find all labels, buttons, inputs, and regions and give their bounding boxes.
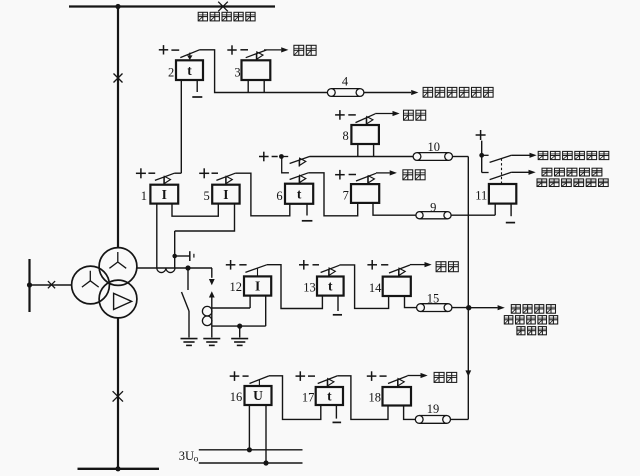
wire 3Uo line a xyxy=(199,449,303,451)
label 切母联断路器 right xyxy=(538,151,609,159)
wire up to relay 2 xyxy=(180,80,182,173)
svg-text:t: t xyxy=(327,389,332,404)
svg-text:6: 6 xyxy=(276,189,282,203)
svg-text:1: 1 xyxy=(141,189,147,203)
label 信号 row 7 xyxy=(403,170,425,180)
wire relay 11 right pin xyxy=(510,204,512,217)
wire 3Uo line b xyxy=(199,462,303,464)
wire element 9 to relay 11 coil xyxy=(451,214,495,216)
svg-text:U: U xyxy=(253,388,263,403)
arrow to signal row 14 xyxy=(425,262,432,267)
svg-text:19: 19 xyxy=(427,402,440,416)
arrow to signal row 3 xyxy=(281,47,288,52)
relay 7 box (signal relay) xyxy=(351,184,379,203)
wire relay 5 bottom to CT tap xyxy=(175,204,235,231)
svg-text:5: 5 xyxy=(204,189,210,203)
minus rail mark under relay 13 xyxy=(333,314,342,316)
wire relay 12 left pin xyxy=(249,296,251,308)
delta symbol LV winding xyxy=(114,293,132,309)
svg-text:3U: 3U xyxy=(179,449,194,463)
contact K14 blade (relay 14) xyxy=(389,265,410,273)
wire gap to neutral CT and ground xyxy=(211,298,213,338)
svg-text:2: 2 xyxy=(168,66,174,80)
contact K5 actuator xyxy=(226,176,233,184)
wye symbol HV winding xyxy=(109,252,126,268)
wire relay 2 right pin to minus xyxy=(196,80,198,92)
wire K3 to signal arrow xyxy=(264,49,281,51)
minus mark K17 xyxy=(308,375,315,377)
node bottom bus junction xyxy=(115,466,120,471)
wire K16 output to relay 17 xyxy=(269,376,321,420)
wire left busbar segment xyxy=(28,259,30,312)
wire K17 output to relay 18 xyxy=(337,376,388,420)
svg-text:14: 14 xyxy=(369,281,382,295)
discharge gap F lower electrode xyxy=(209,291,215,297)
label 信号 row 8 xyxy=(404,110,426,120)
contact K1 actuator xyxy=(164,176,171,184)
arrow to transformer master trip relay xyxy=(498,305,505,310)
relay 14 box (signal relay) xyxy=(383,277,411,296)
plus supply contact K2 xyxy=(159,45,168,54)
transformer T winding HV circle xyxy=(99,248,137,286)
minus rail mark under relay 6 xyxy=(302,220,313,222)
wire tap stub xyxy=(175,255,190,257)
contact K14 actuator xyxy=(399,268,406,276)
wire K18 to signal arrow xyxy=(408,375,421,377)
label 切本变压器 xyxy=(542,168,602,176)
contact K13 actuator xyxy=(329,268,336,276)
contact K3 actuator xyxy=(256,52,263,60)
relay 18 box (signal relay) xyxy=(383,387,412,406)
contact K1 blade (relay 1) xyxy=(155,173,175,180)
wire element 15 to trip bus xyxy=(452,307,468,309)
arrow flow marker on trip bus xyxy=(465,370,471,376)
wire relay 18 to element 19 xyxy=(404,406,416,420)
wire relay 11 left pin xyxy=(494,204,496,216)
wire CT lead to relay 5 chain xyxy=(174,231,176,268)
wire left bus to MV winding xyxy=(30,284,72,286)
minus mark K18 xyxy=(380,375,387,377)
contact K13 blade (relay 13) xyxy=(321,265,340,272)
wire K1 to relay 2 coil xyxy=(174,172,181,174)
svg-text:I: I xyxy=(162,187,167,202)
breaker X on HV bus xyxy=(114,74,123,83)
label 继电器 xyxy=(517,327,547,335)
label 信号 row 18 xyxy=(434,372,457,382)
svg-text:16: 16 xyxy=(230,390,243,404)
discharge gap F upper electrode xyxy=(209,279,215,285)
svg-text:9: 9 xyxy=(430,200,436,214)
transformer T winding LV circle xyxy=(99,280,137,318)
wire relay 16 right pin to 3Uo b xyxy=(265,405,267,463)
breaker X on MV branch xyxy=(48,281,55,288)
wire K5 output to relay 6 xyxy=(235,173,289,216)
series signal element 19 xyxy=(415,416,450,424)
wire K2 output rail to element 4 xyxy=(200,50,328,93)
wire to lower contact K6b xyxy=(282,157,289,173)
wire CT0 lower tap to relay 12 xyxy=(212,325,266,327)
svg-text:7: 7 xyxy=(343,188,349,202)
contact K2 arrow to relay 2 xyxy=(187,55,192,60)
plus supply contact K18 xyxy=(367,371,377,381)
minus rail mark under relay 2 xyxy=(192,96,202,98)
wire K8 to signal arrow xyxy=(375,113,392,115)
wire CT0 upper tap to relay 12 xyxy=(212,307,250,309)
relay 13 box (time relay t) xyxy=(317,277,344,296)
relay 12 box (current relay I) xyxy=(244,276,271,295)
svg-text:18: 18 xyxy=(369,391,382,405)
wire bottom busbar xyxy=(78,468,160,470)
wire rail to element 10 xyxy=(310,156,414,158)
node bus junction top xyxy=(115,4,120,9)
relay 5 box (current relay I) xyxy=(212,185,239,204)
plus supply contact K1 xyxy=(136,168,146,178)
svg-text:17: 17 xyxy=(302,390,315,404)
arrow trip bus-tie breaker xyxy=(411,90,418,95)
contact K6a blade (relay 6 instant) xyxy=(290,157,310,164)
svg-text:t: t xyxy=(328,279,333,294)
svg-text:3: 3 xyxy=(234,66,240,80)
wire element 10 to trip bus xyxy=(453,156,469,158)
contact K12 stem xyxy=(257,268,259,276)
node K6 supply split xyxy=(279,154,284,159)
label 至变压器 xyxy=(511,305,555,314)
contact K18 actuator xyxy=(398,379,405,387)
minus mark K16 xyxy=(243,375,249,377)
relay 2 box (time relay t) xyxy=(176,60,203,80)
contact K6a actuator xyxy=(299,158,306,166)
plus supply contact K13 xyxy=(299,260,309,270)
contact K18 blade (relay 18) xyxy=(388,376,408,384)
wire relay 16 left pin to 3Uo a xyxy=(248,405,250,450)
series signal element 4 xyxy=(327,89,364,97)
relay 6 box (time relay t) xyxy=(285,184,313,204)
wire top busbar xyxy=(69,5,275,7)
wire element 4 to trip arrow xyxy=(364,92,411,94)
plus supply contact K7 xyxy=(335,170,345,180)
wire element 19 to trip bus xyxy=(451,418,469,420)
wire stub K11b xyxy=(482,172,489,174)
neutral CT TA0 coil turns xyxy=(202,306,212,316)
svg-text:13: 13 xyxy=(303,281,316,295)
svg-text:10: 10 xyxy=(427,140,440,154)
wire K13 output to relay 14 xyxy=(339,265,388,309)
wire LV bus vertical below transformer xyxy=(117,318,119,469)
wire K7 to signal arrow xyxy=(376,172,390,174)
wire plus feed xyxy=(481,141,483,173)
wire K11b to arrow xyxy=(511,171,528,173)
arrow trip bus-tie breaker xyxy=(530,153,537,158)
relay 11 box (intermediate relay) xyxy=(489,184,516,204)
contact K6b blade (relay 6 delayed) xyxy=(290,173,309,180)
contact K16 blade (relay 16) xyxy=(250,376,269,384)
node trip bus junction row 15 xyxy=(466,305,471,310)
series signal element 9 xyxy=(416,212,451,219)
wire relay 3 left pin xyxy=(247,80,249,93)
node neutral junction xyxy=(185,265,190,270)
minus mark K14 xyxy=(381,264,388,266)
terminal bar symbol xyxy=(189,251,191,261)
contact K17 actuator xyxy=(327,379,334,387)
wire relay 6 right pin xyxy=(306,204,308,216)
minus mark K2 xyxy=(171,49,179,51)
plus supply contact K16 xyxy=(230,371,240,381)
ground at relay 12 return xyxy=(231,339,248,346)
wire to output arrow xyxy=(469,307,498,309)
wire K14 to signal arrow xyxy=(410,264,425,266)
contact K2 blade (relay 2 time contact) xyxy=(180,50,199,58)
minus rail mark under relay 11 xyxy=(506,222,515,224)
svg-text:12: 12 xyxy=(230,280,243,294)
wire relay 14 to element 15 xyxy=(405,296,417,308)
contact K7 actuator xyxy=(368,176,375,184)
minus mark K8 xyxy=(348,114,356,116)
wire neutral to discharge gap xyxy=(211,268,213,278)
breaker X bus-tie on top bus xyxy=(218,2,228,12)
arrow to signal row 7 xyxy=(390,170,397,175)
contact K7 blade (relay 7) xyxy=(356,173,376,181)
plus supply contact K17 xyxy=(296,371,306,381)
CT TA secondary loops xyxy=(157,268,175,273)
wire main HV bus vertical xyxy=(117,7,119,248)
minus mark K3 xyxy=(240,49,248,51)
contact K16 stem xyxy=(258,380,260,386)
wire relay 17 right pin xyxy=(335,405,337,419)
wye symbol MV winding xyxy=(82,271,99,287)
breaker X on lower bus xyxy=(113,391,123,401)
contact K3 blade (relay 3) xyxy=(246,50,267,58)
node CT lead tap xyxy=(172,254,177,259)
svg-text:o: o xyxy=(194,455,199,465)
label 信号 row 14 xyxy=(436,262,458,272)
minus mark K6 xyxy=(272,156,278,158)
wire relay 3 right pin xyxy=(263,80,265,93)
wire K6b output to relay 7 xyxy=(308,173,357,216)
contact K17 blade (relay 17) xyxy=(318,376,338,384)
minus mark K7 xyxy=(349,174,356,176)
relay 8 box (signal relay) xyxy=(351,125,379,144)
series signal element 15 xyxy=(417,304,452,312)
minus mark K12 xyxy=(239,264,246,266)
ground under neutral CT xyxy=(203,339,220,346)
minus mark K13 xyxy=(313,264,320,266)
ground under earthing switch xyxy=(181,339,198,346)
relay 16 box (voltage relay U) xyxy=(245,386,272,405)
wire switch to ground xyxy=(188,311,190,338)
wire HV neutral lead xyxy=(137,267,212,269)
plus supply relay 11 contacts xyxy=(476,130,486,140)
plus supply contact K5 xyxy=(199,168,209,178)
wire CT lead to relay 1 xyxy=(156,204,158,268)
svg-text:4: 4 xyxy=(342,75,349,89)
wire relay 7 to element 9 xyxy=(373,203,416,215)
wire stub upper K6 xyxy=(281,156,288,158)
wire relay 13 right pin xyxy=(337,296,339,311)
plus supply contact K12 xyxy=(226,260,236,270)
label 高压侧断路器 xyxy=(537,179,608,187)
contact K8 blade (relay 8) xyxy=(356,114,376,123)
plus supply contact K3 xyxy=(227,45,236,54)
plus supply contacts K6 xyxy=(259,152,269,162)
node left bus junction xyxy=(27,282,32,287)
contact K11b blade xyxy=(490,172,512,179)
minus mark K1 xyxy=(148,172,155,174)
wire stub K11a xyxy=(482,154,489,156)
label 总出口中间 xyxy=(504,316,557,324)
contact K6b actuator xyxy=(299,175,306,183)
series signal element 10 xyxy=(413,153,452,161)
contact K12 blade (relay 12) xyxy=(245,265,266,273)
label 切母联断路器 row 4 xyxy=(423,87,493,97)
svg-text:I: I xyxy=(223,187,228,202)
svg-text:t: t xyxy=(297,186,302,201)
svg-text:t: t xyxy=(187,63,192,78)
relay 3 box (signal relay) xyxy=(242,60,271,80)
svg-text:8: 8 xyxy=(343,129,349,143)
node 3Uo tap a xyxy=(247,447,252,452)
wire to earthing switch xyxy=(187,268,189,290)
relay 1 box (current relay I) xyxy=(150,185,178,204)
wire K11a to arrow xyxy=(511,154,529,156)
wire to ground xyxy=(239,326,241,337)
arrow to signal row 8 xyxy=(393,111,400,116)
transformer T winding MV circle xyxy=(72,266,110,304)
arrow to signal row 18 xyxy=(421,373,428,378)
wire relay 1 to relay 5 bottom chain xyxy=(172,204,218,217)
label 母联断路器 xyxy=(198,12,255,21)
wire relay 12 right pin xyxy=(265,296,267,327)
node ground tap xyxy=(237,324,242,329)
node 3Uo tap b xyxy=(263,460,268,465)
svg-text:I: I xyxy=(255,279,260,294)
minus rail mark under relay 17 xyxy=(333,421,342,423)
contact K2 stem xyxy=(189,53,191,56)
node relay 11 contact split xyxy=(479,153,484,158)
dashed link relay 11 contacts xyxy=(501,159,503,185)
contact K5 blade (relay 5) xyxy=(216,173,235,180)
contact K11a blade xyxy=(490,155,512,162)
relay 17 box (time relay t) xyxy=(316,387,343,405)
arrow trip transformer HV breaker xyxy=(529,170,536,175)
label 信号 row 3 xyxy=(294,45,316,55)
wire vertical trip bus xyxy=(467,157,469,420)
wire K12 output to relay 13 xyxy=(267,265,323,309)
svg-text:15: 15 xyxy=(427,292,440,306)
svg-text:11: 11 xyxy=(475,188,487,202)
switch QS earthing blade xyxy=(182,292,190,311)
contact K8 actuator xyxy=(366,117,373,125)
plus supply contact K14 xyxy=(367,260,377,270)
plus supply contact K8 xyxy=(335,110,345,120)
minus mark K5 xyxy=(212,172,219,174)
wire relay 8 right pin to rail xyxy=(373,144,375,157)
wire relay 8 left pin to rail xyxy=(357,144,359,157)
